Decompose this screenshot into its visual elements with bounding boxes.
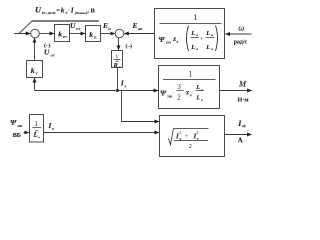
svg-text:2: 2 [177, 93, 181, 101]
svg-text:L: L [195, 95, 200, 102]
svg-text:Я: Я [119, 66, 121, 69]
svg-text:U: U [70, 21, 76, 30]
svg-text:РС.ДОП: РС.ДОП [42, 11, 56, 15]
svg-text:(–): (–) [126, 43, 133, 50]
svg-text:ВБ: ВБ [13, 132, 21, 139]
svg-text:2Ш: 2Ш [17, 124, 23, 128]
svg-text:ОТ: ОТ [51, 53, 56, 57]
svg-text:+: + [200, 36, 204, 43]
svg-text:(Пмакс): (Пмакс) [75, 11, 87, 15]
svg-text:L: L [190, 44, 195, 51]
svg-text:k: k [58, 29, 62, 38]
svg-text:2: 2 [189, 143, 192, 150]
svg-text:z: z [172, 35, 176, 43]
svg-text:L: L [205, 30, 210, 37]
svg-text:1: 1 [189, 70, 193, 79]
svg-text:·: · [68, 8, 70, 14]
svg-text:U: U [44, 48, 50, 57]
svg-text:П: П [211, 34, 213, 37]
svg-text:E: E [102, 21, 108, 30]
svg-text:E: E [132, 21, 138, 30]
svg-text:L: L [33, 131, 38, 139]
svg-text:, В: , В [87, 8, 95, 15]
svg-text:L: L [195, 84, 200, 91]
svg-text:ω: ω [238, 22, 244, 32]
svg-text:У: У [124, 84, 127, 88]
svg-text:ДП: ДП [138, 27, 143, 31]
svg-text:Я: Я [196, 34, 198, 37]
svg-text:k: k [61, 6, 65, 15]
svg-text:1: 1 [34, 119, 38, 128]
svg-text:+: + [185, 133, 189, 140]
svg-text:рад/с: рад/с [234, 39, 248, 45]
svg-text:k: k [89, 30, 93, 39]
svg-text:Н·м: Н·м [238, 96, 250, 103]
svg-text:П: П [196, 48, 198, 51]
svg-text:L: L [190, 30, 195, 37]
svg-text:z: z [185, 88, 189, 96]
svg-text:Х: Х [52, 127, 55, 131]
svg-text:А: А [238, 137, 243, 145]
svg-text:м: м [38, 136, 40, 139]
svg-text:3: 3 [177, 83, 181, 91]
svg-text:Я: Я [211, 48, 213, 51]
svg-text:=: = [56, 8, 60, 15]
svg-text:k: k [31, 66, 35, 75]
svg-text:Ψ: Ψ [160, 89, 167, 98]
svg-text:м: м [201, 88, 203, 91]
svg-text:Я: Я [201, 99, 203, 102]
svg-text:РТ: РТ [76, 27, 81, 31]
svg-text:L: L [205, 44, 210, 51]
svg-text:М: М [238, 79, 247, 88]
svg-text:П: П [108, 27, 111, 31]
svg-text:эф: эф [242, 124, 246, 128]
svg-text:Ψ: Ψ [10, 118, 17, 127]
svg-text:1: 1 [193, 12, 197, 22]
svg-text:Ψ: Ψ [159, 35, 166, 44]
svg-text:U: U [35, 6, 42, 15]
